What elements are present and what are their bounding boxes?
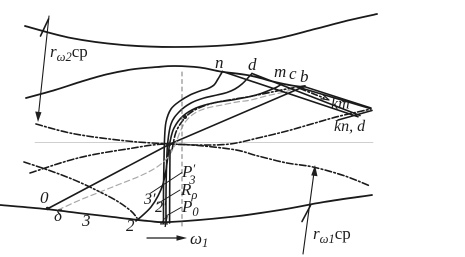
line b to k: [304, 87, 371, 109]
point labels 0 delta 3 2 4 and n d m c b: [40, 53, 309, 235]
svg-text:0: 0: [40, 188, 49, 207]
svg-text:ω1: ω1: [190, 229, 208, 250]
dash-dot contact curve lower branch toward point 2: [24, 162, 137, 218]
labels P3prime R_rho P0: [180, 161, 199, 219]
tick slash bottom: [302, 206, 311, 222]
svg-text:km: km: [331, 96, 350, 113]
dash-dot contact curve upper branch to b: [172, 86, 305, 150]
top arc: gear 2 tip circle: [25, 14, 377, 47]
km dash-dot leader with arrowhead: [300, 89, 324, 99]
dimension r_w2: slanted line with down arrow: [38, 16, 49, 119]
contact curve vertical at point 4: [169, 150, 171, 223]
leader P3': [150, 173, 182, 194]
svg-text:rω1ср: rω1ср: [313, 224, 351, 246]
tick slash top: [41, 19, 49, 36]
omega1 axis arrow: [147, 237, 183, 239]
dot on dashed line: [183, 115, 187, 119]
dimension labels r_omega2 cp, r_omega1 cp, omega1 axis: [50, 42, 351, 250]
lower arm from k toward kn,d label: [338, 111, 372, 121]
line d to k: [252, 74, 360, 116]
svg-text:2′: 2′: [155, 199, 167, 216]
svg-text:rω2ср: rω2ср: [50, 42, 88, 64]
leader R_rho: [157, 190, 180, 204]
leader P0: [166, 208, 181, 217]
dash-dot initial circle of gear 2 (upper), through P to k: [36, 109, 371, 145]
contact curve S3 from point 2 to m: [136, 85, 281, 222]
dash-dot initial circle of gear 1 (lower), apex at P: [30, 144, 370, 186]
line 0 to P: [49, 144, 170, 208]
svg-text:d: d: [248, 55, 257, 74]
contact curve S1 to n: [163, 72, 222, 224]
junction dot at point 0: [46, 207, 49, 210]
bottom arc through points 0 delta 3 2 4: [0, 195, 372, 222]
faint horizontal centerline through pitch point P: [35, 142, 373, 144]
line P to b: [170, 87, 304, 145]
svg-text:m: m: [274, 62, 286, 81]
svg-text:δ: δ: [54, 206, 63, 225]
gray dashed contact curve from delta to c: [58, 87, 296, 210]
svg-text:3: 3: [81, 211, 91, 230]
line n to k: [223, 72, 359, 117]
vertical dashed reference line: [181, 72, 183, 228]
svg-text:2: 2: [126, 216, 135, 235]
line c to k: [296, 87, 370, 109]
dimension r_w1: arrow up to dash-dot circle: [303, 168, 315, 254]
arc 2: gear 1 tip circle through points n d m c b: [26, 66, 304, 98]
svg-text:kn, d: kn, d: [334, 118, 366, 135]
svg-text:b: b: [300, 67, 309, 86]
svg-text:c: c: [289, 64, 297, 83]
dot at pitch point P: [167, 143, 171, 147]
svg-text:n: n: [215, 53, 224, 72]
contact curve S2 to d: [166, 74, 252, 224]
point labels 3prime 2prime km kn,d: [143, 96, 366, 217]
